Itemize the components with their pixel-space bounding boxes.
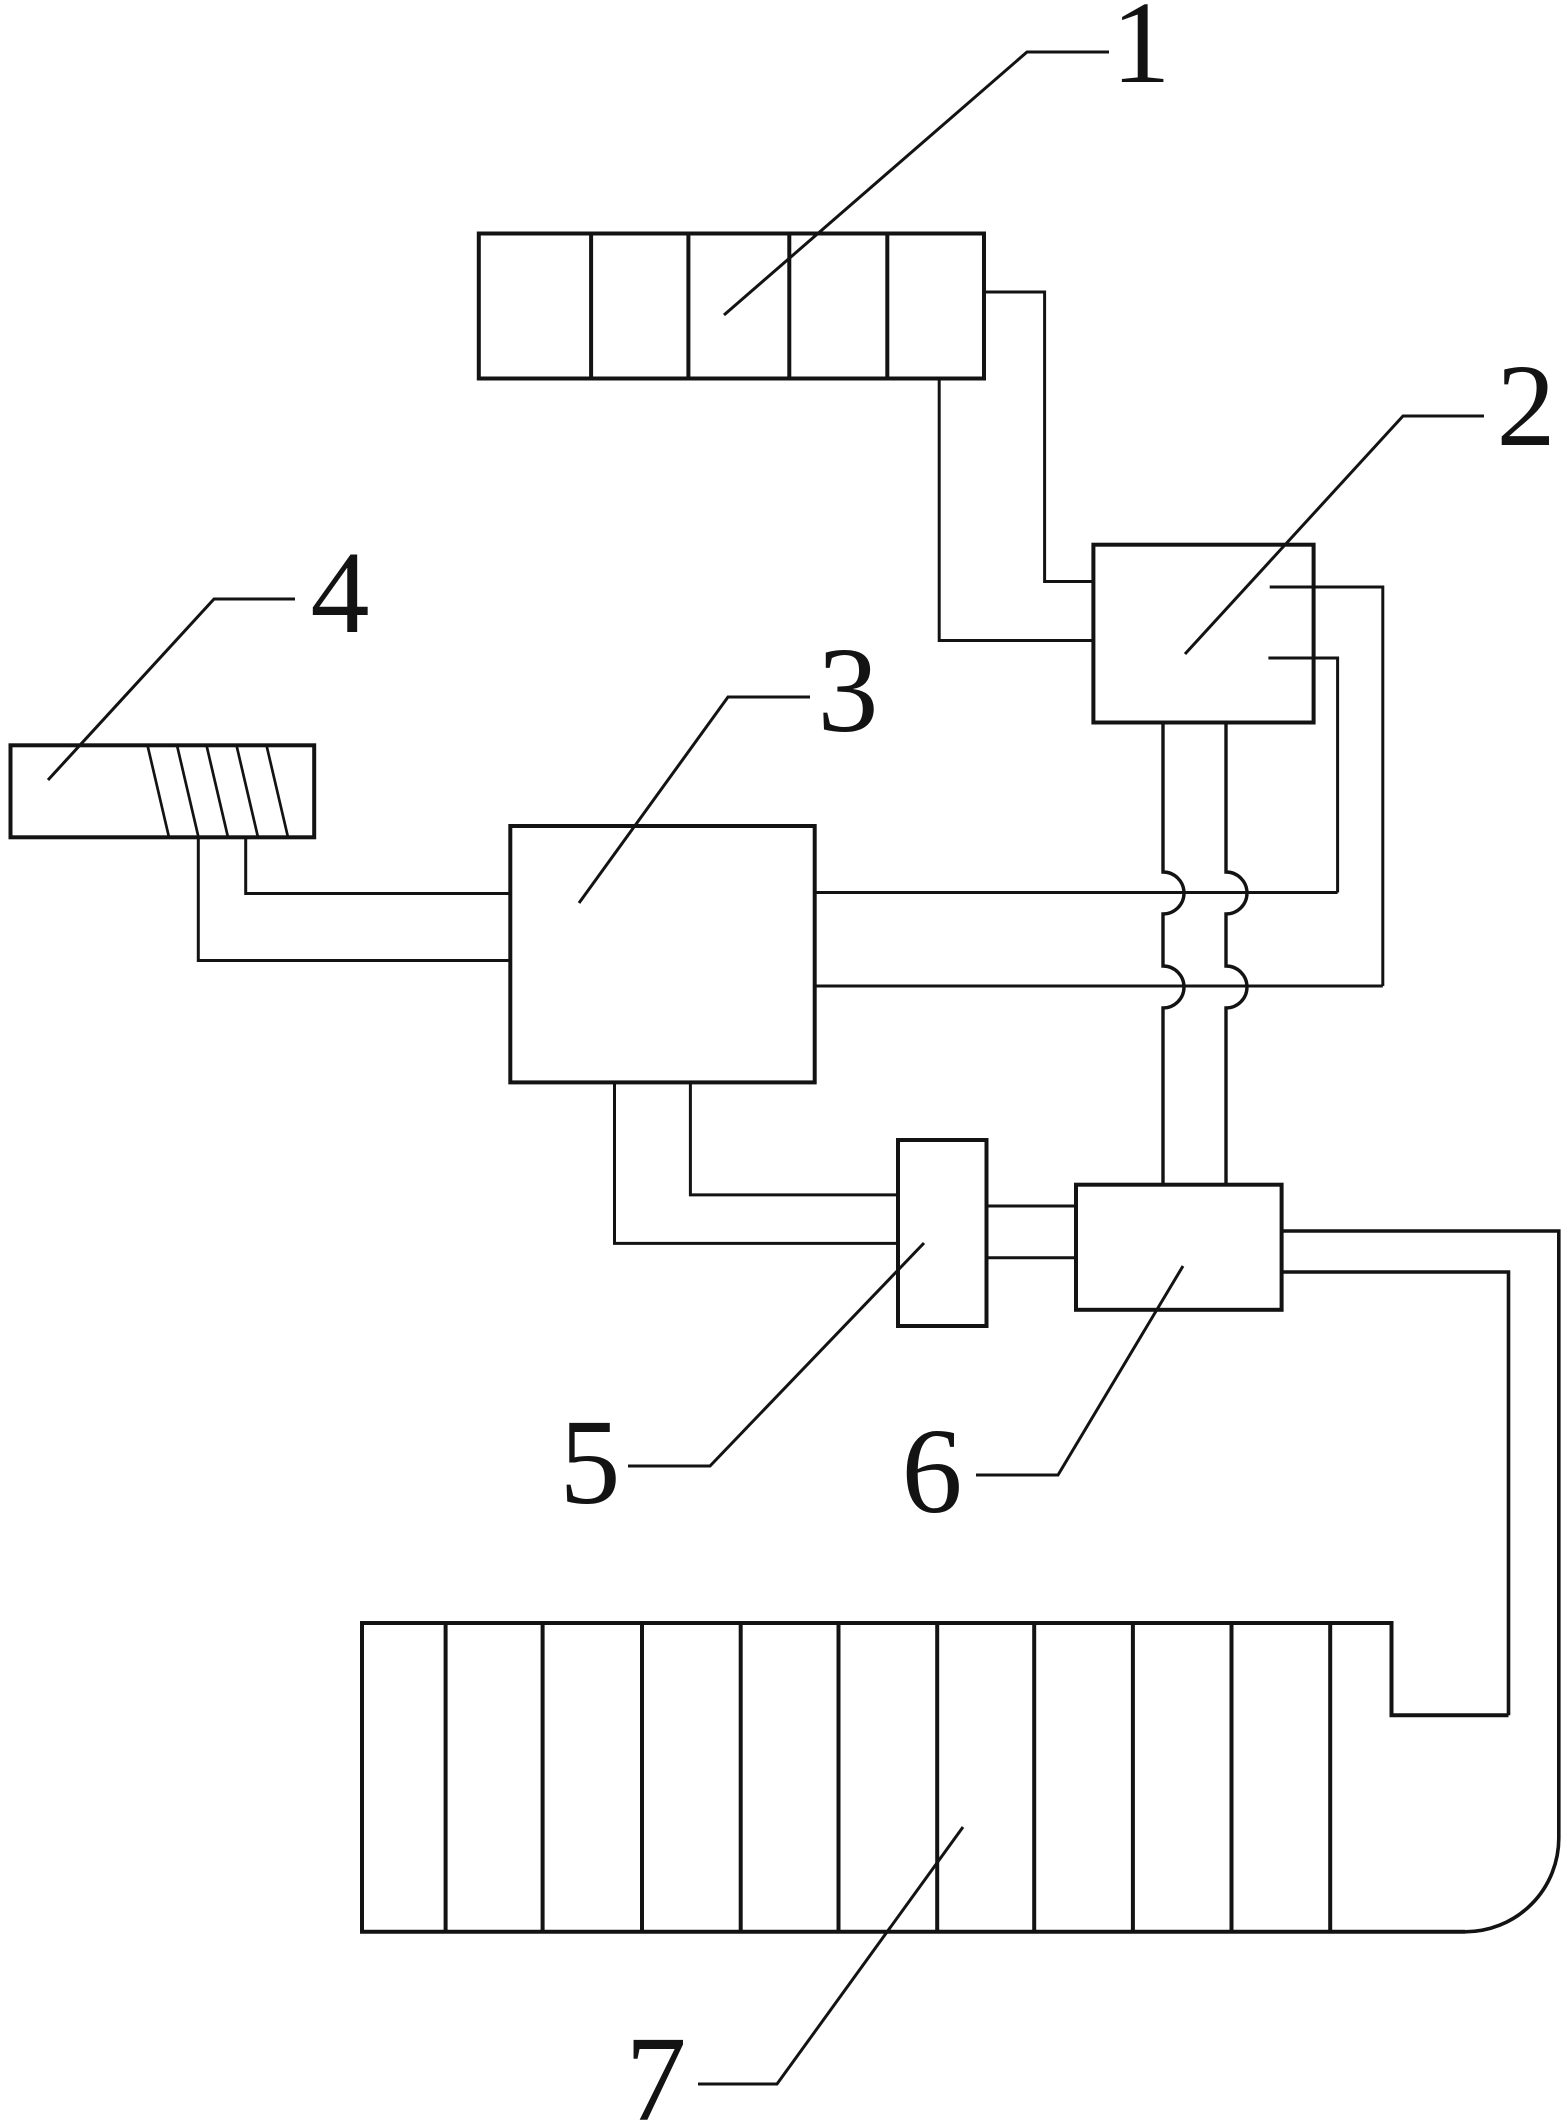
wire module2 lower-right stub to vertical x=1337.6 down to upper bus xyxy=(1268,658,1337,893)
wire module1 right edge to module2 left (upper) xyxy=(984,292,1093,582)
leader line for label 6 xyxy=(976,1266,1183,1475)
wire module5 to module6 (lower) xyxy=(987,1256,1077,1259)
svg-text:1: 1 xyxy=(1112,0,1171,108)
wire module5 to module6 (upper) xyxy=(987,1205,1077,1208)
wire module2 bottom to module6 top (right vertical, hops over both buses) xyxy=(1226,723,1247,1185)
module 4 hatch lines xyxy=(148,745,289,837)
leader line for label 7 xyxy=(698,1827,963,2084)
leader line for label 4 xyxy=(48,599,295,780)
wire module3 right lower bus xyxy=(815,985,1383,988)
svg-text:4: 4 xyxy=(311,527,370,658)
leader line for label 2 xyxy=(1185,416,1484,654)
wire module6 upper-right to module7 bottom (outer run with rounded corner) xyxy=(1282,1231,1559,1932)
wire module2 bottom to module6 top (left vertical, hops over both buses) xyxy=(1163,723,1184,1185)
wire module4 bottom to module3 left (lower) xyxy=(198,837,510,960)
module 7 cell dividers xyxy=(446,1623,1331,1932)
wire module2 upper-right stub to vertical x=1382.8 down to lower bus xyxy=(1270,587,1383,986)
leader line for label 3 xyxy=(579,697,810,903)
svg-text:3: 3 xyxy=(818,623,879,758)
module 2 (box) xyxy=(1093,545,1313,723)
svg-text:2: 2 xyxy=(1497,340,1556,471)
leader line for label 1 xyxy=(724,52,1109,315)
svg-text:5: 5 xyxy=(560,1395,621,1530)
module 3 (box) xyxy=(510,826,814,1082)
wire module6 lower-right to module7 notch (inner run) xyxy=(1282,1272,1509,1715)
wire module3 bottom to module5 left (lower) xyxy=(615,1082,899,1243)
wire module1 bottom to module2 left (lower) xyxy=(939,379,1093,641)
wire module3 right upper bus xyxy=(815,891,1338,894)
wire module4 bottom to module3 left (upper) xyxy=(246,837,511,893)
leader line for label 5 xyxy=(628,1243,924,1466)
wire module3 bottom to module5 left (upper) xyxy=(690,1082,898,1195)
module 4 (hatched strip) xyxy=(11,745,315,837)
module 5 (small vertical box) xyxy=(898,1140,987,1326)
module 7 (segmented block outline with notch) xyxy=(362,1623,1509,1932)
svg-text:6: 6 xyxy=(902,1404,963,1539)
svg-text:7: 7 xyxy=(626,2012,687,2121)
module 1 (segmented block, 5 cells) xyxy=(479,234,984,379)
module 6 (box) xyxy=(1076,1185,1282,1310)
